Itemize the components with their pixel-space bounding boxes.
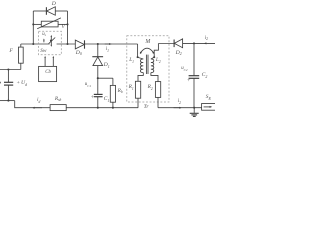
label uC1 — [85, 83, 91, 88]
switch box Sw dashed — [39, 31, 62, 54]
node C1-rail — [97, 107, 99, 109]
label F — [9, 49, 12, 55]
arrow i1 — [105, 43, 112, 45]
label Sw — [40, 49, 46, 54]
wire snubber right vertical — [67, 11, 69, 44]
node D1-C1-Rb junction — [97, 77, 99, 79]
wire rail D0 to transformer — [85, 43, 138, 45]
label C1 — [104, 97, 110, 103]
node rail-snubber left — [32, 43, 34, 45]
arrow i2 bottom — [174, 107, 183, 109]
label R1 — [129, 85, 134, 90]
node switch contact — [50, 40, 52, 42]
label i2 bottom — [178, 99, 181, 104]
label C2 — [202, 73, 208, 79]
resistor R1 — [135, 73, 143, 108]
label L1 — [129, 58, 134, 63]
control box — [39, 66, 57, 81]
wire control lead right — [53, 56, 55, 67]
arrow id — [32, 107, 42, 109]
capacitor Cd — [4, 70, 13, 101]
label fragment clipped at left edge — [0, 82, 1, 84]
node rail-snubber right — [66, 43, 68, 45]
label Cb — [45, 71, 51, 76]
switch actuation double arrow — [51, 35, 53, 47]
label uC2 — [181, 67, 187, 72]
wire bottom rail left — [66, 107, 138, 109]
label D — [52, 2, 56, 8]
label V — [61, 25, 64, 31]
varistor V — [33, 18, 67, 29]
wire primary top lead — [137, 44, 139, 58]
wire bottom rail right — [158, 107, 202, 109]
label D2 — [176, 51, 182, 57]
wire rail from switch to D0 — [57, 43, 76, 45]
wire main rail left — [21, 43, 50, 45]
transformer core — [146, 55, 148, 74]
diode D2 — [174, 39, 183, 48]
wire input top stub — [0, 69, 21, 71]
resistor Rb — [98, 78, 116, 108]
resistor R2 — [151, 73, 161, 108]
switch Sw blade — [49, 38, 56, 44]
label i2 top — [205, 36, 208, 41]
wire rail D2 to edge — [183, 42, 215, 44]
label us — [42, 33, 46, 38]
label D0 — [76, 51, 82, 57]
label R2 — [148, 85, 153, 90]
node rail-C2 — [193, 42, 195, 44]
label plus C2 — [187, 79, 190, 85]
node L2 polarity dot — [153, 56, 155, 58]
ground — [190, 108, 199, 117]
label Rb — [118, 89, 123, 94]
wire diode row left — [33, 10, 46, 12]
node input top junction — [7, 68, 9, 70]
transformer box Tr dashed — [127, 36, 169, 102]
node L1 polarity dot — [137, 56, 139, 58]
label SR — [206, 95, 211, 100]
label id — [37, 98, 40, 103]
arrow i2 top — [204, 42, 207, 44]
wire snubber left vertical — [32, 11, 34, 44]
label M — [145, 40, 150, 46]
label D1 — [104, 63, 110, 69]
arrow us reference — [43, 39, 45, 43]
label +Ud — [17, 81, 27, 87]
label i1 — [106, 47, 109, 52]
fuse F — [19, 44, 24, 70]
label plus C1 — [91, 96, 94, 102]
node varistor right — [66, 23, 68, 25]
wire rail to D2 — [158, 43, 174, 45]
inductor L2 — [151, 57, 154, 72]
mutual coupling arc M — [140, 48, 154, 54]
wire secondary top lead — [154, 44, 158, 58]
label Rsh — [55, 97, 61, 102]
node input bottom junction — [7, 100, 9, 102]
inductor L1 — [138, 57, 144, 72]
sensor box SR — [202, 104, 216, 111]
wire control lead left — [44, 56, 46, 67]
diode D — [46, 7, 67, 15]
diode D0 — [75, 40, 84, 49]
resistor Rsh — [50, 105, 66, 111]
capacitor C1 — [94, 94, 103, 107]
node Rb-rail — [112, 107, 114, 109]
node varistor left — [32, 23, 34, 25]
node rail-D1 — [97, 43, 99, 45]
capacitor C2 — [189, 43, 200, 107]
wire bottom step — [15, 101, 50, 108]
node ground junction — [193, 107, 195, 109]
label Tr — [144, 105, 149, 111]
wire input bottom stub — [0, 100, 15, 102]
diode D1 — [92, 44, 103, 94]
label L2 — [156, 58, 161, 63]
